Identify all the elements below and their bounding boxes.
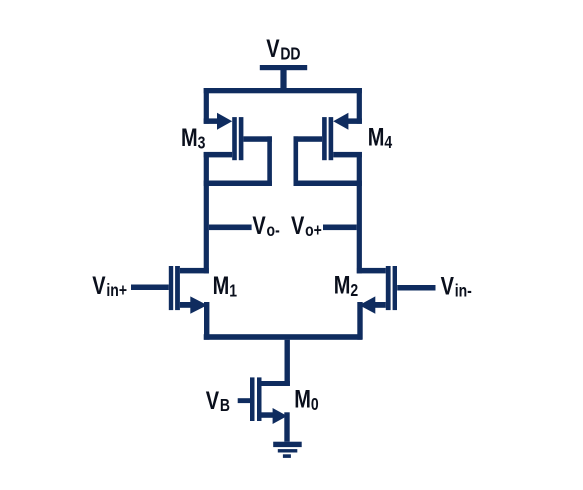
transistor M4 channel bar [329,117,334,160]
wire: M4 gate vertical [294,136,299,186]
svg-text:M1: M1 [213,272,238,301]
wire: M3 gate-drain loop bottom [204,181,272,187]
transistor M0 source arrow [273,408,288,424]
wire: M2 drain horizontal [357,268,386,274]
wire: M3 gate horizontal [243,136,272,142]
transistor M1 source arrow [190,296,207,313]
wire: M2 source horizontal [375,302,386,308]
wire: tail rail (common source node) [204,334,362,340]
transistor M3 gate bar [239,117,244,160]
wire: M0 source vertical to ground [284,412,289,441]
ground symbol middle bar [278,449,298,452]
svg-text:Vo-: Vo- [252,212,279,241]
wire: M1 drain horizontal [180,268,209,274]
transistor M2 gate bar [393,266,397,310]
wire: rail to M3 source [204,88,209,124]
transistor M2 channel bar [386,266,391,310]
wire: M4 gate horizontal [294,136,323,142]
wire: VB gate lead [238,398,250,403]
wire: M4 drain horizontal [333,152,362,158]
transistor M4 source arrow [333,113,348,130]
wire: tail stub to M0 drain [285,340,290,386]
wire: right output column (Vo+ node) [357,152,362,273]
ground symbol top bar [273,442,302,447]
transistor M3 source arrow [217,113,232,130]
VDD supply bar [260,65,307,70]
svg-text:M0: M0 [294,385,319,414]
wire: Vin- gate lead [397,285,435,291]
transistor M1 gate bar [169,266,173,310]
wire: M4 source horizontal [348,118,362,124]
wire: M0 drain horizontal [262,381,290,386]
svg-text:M4: M4 [368,123,393,152]
ground symbol bottom bar [283,454,291,458]
VDD stub wire [280,70,286,89]
wire: M1 source vertical [204,302,209,340]
top rail wire (VDD net) [204,88,362,93]
svg-text:Vin-: Vin- [441,272,472,301]
svg-text:VDD: VDD [266,35,300,64]
transistor M4 gate bar [322,117,327,160]
svg-text:Vin+: Vin+ [92,272,127,301]
svg-text:Vo+: Vo+ [291,212,322,241]
wire: left output column (Vo- node) [204,152,209,273]
transistor M0 gate bar [250,377,255,421]
wire: M3 source horizontal [204,118,218,124]
transistor M2 source arrow [359,296,375,313]
wire: M2 source vertical [357,302,362,340]
wire: M3 drain horizontal [204,152,233,158]
svg-text:VB: VB [206,387,230,416]
wire: Vin+ gate lead [131,285,169,291]
svg-text:M2: M2 [334,271,359,300]
wire: M0 source horizontal [262,412,274,418]
transistor M3 channel bar [232,117,237,160]
wire: M1 source horizontal [180,302,191,308]
transistor M0 channel bar [257,377,262,421]
svg-text:M3: M3 [181,124,206,153]
wire: Vo+ tap [323,225,357,231]
wire: M4 gate-drain loop bottom [294,181,362,187]
wire: Vo- tap [209,225,252,231]
wire: M3 gate vertical [267,136,272,186]
transistor M1 channel bar [175,266,180,310]
wire: rail to M4 source [357,88,362,124]
